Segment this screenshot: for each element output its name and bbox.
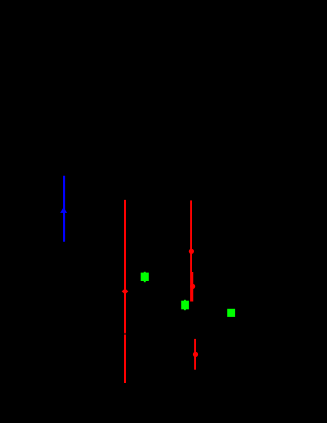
green square marker 1 — [141, 273, 149, 281]
blue error bar line — [63, 176, 65, 242]
green error bar 1 line — [144, 272, 146, 282]
red diamond marker 1 — [122, 289, 129, 295]
red circle marker 3 — [190, 284, 195, 289]
red circle marker 4 — [193, 352, 198, 357]
red circle marker 2 — [189, 249, 194, 254]
green square marker 3 — [227, 309, 235, 317]
red error bar 3 line — [191, 272, 193, 302]
green error bar 2 line — [184, 300, 186, 310]
red error bar 1 line — [124, 200, 126, 383]
red error bar 4 line — [194, 339, 196, 370]
blue triangle marker — [60, 207, 67, 213]
red error bar 2 line — [190, 200, 192, 301]
dark band over red error bar 1 — [124, 333, 127, 335]
green square marker 2 — [181, 301, 189, 310]
